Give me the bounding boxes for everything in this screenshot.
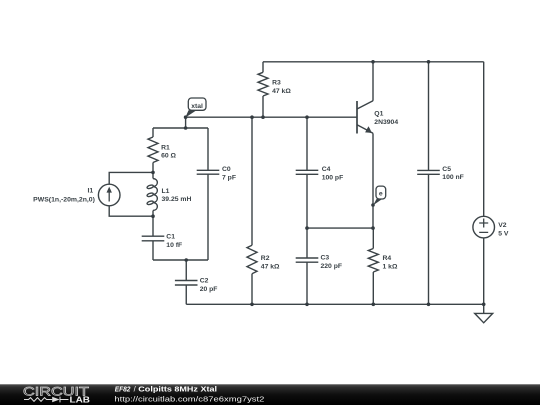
wire base rail <box>186 116 357 118</box>
node e flag <box>373 199 382 206</box>
inductor L1 <box>153 179 157 211</box>
wire R2 bottom <box>251 274 253 305</box>
wire emitter link <box>307 227 373 229</box>
wire R2 top <box>251 117 253 245</box>
voltage source V2 <box>473 216 495 238</box>
wire xtal node stub <box>185 117 187 128</box>
wire C0 bottom stub <box>207 174 209 260</box>
wire R4 bottom <box>372 272 374 304</box>
wire tank bottom rail <box>153 259 208 261</box>
junction gnd C3 <box>305 303 309 307</box>
svg-text:2N3904: 2N3904 <box>374 119 398 126</box>
wire C0 top stub <box>207 128 209 170</box>
wire R1 to L1 <box>152 163 154 179</box>
resistor R1 <box>148 137 158 163</box>
wire ground stub <box>483 304 485 313</box>
svg-text:C2: C2 <box>200 278 209 285</box>
svg-text:220 pF: 220 pF <box>321 263 343 270</box>
capacitor C2 <box>175 281 198 286</box>
junction emitter link left <box>305 226 309 230</box>
svg-text:e: e <box>379 190 383 197</box>
wire tank top rail <box>153 127 208 129</box>
wire C4 to C3 <box>306 174 308 258</box>
junction gnd R2 <box>250 303 254 307</box>
svg-text:EF82: EF82 <box>115 384 131 393</box>
capacitor C3 <box>296 258 319 262</box>
wire C5 bottom stub <box>428 174 430 304</box>
svg-text:Q1: Q1 <box>374 111 383 118</box>
wire I1 bottom <box>109 206 153 216</box>
wire R4 top <box>372 228 374 248</box>
svg-text:C0: C0 <box>222 166 231 173</box>
junction base C4 <box>305 115 309 119</box>
junction xtal node <box>184 115 188 119</box>
wire ground rail <box>186 303 483 305</box>
svg-text:R3: R3 <box>272 79 281 86</box>
svg-text:10 fF: 10 fF <box>166 242 182 249</box>
junction tank bottom <box>184 258 188 262</box>
resistor R2 <box>247 245 257 274</box>
resistor R3 <box>258 72 268 96</box>
svg-text:I1: I1 <box>88 188 94 195</box>
wire I1 top <box>109 172 153 184</box>
svg-text:C1: C1 <box>166 234 175 241</box>
junction L1 I1 <box>151 214 155 218</box>
capacitor C5 <box>417 170 440 174</box>
svg-text:http://circuitlab.com/c87e6xmg: http://circuitlab.com/c87e6xmg7yst2 <box>114 395 264 404</box>
wire C1 bottom <box>152 241 154 260</box>
wire V2 top <box>483 62 485 217</box>
svg-text:47 kΩ: 47 kΩ <box>261 263 280 270</box>
footer bar <box>0 384 540 405</box>
wire emitter down <box>372 133 374 228</box>
svg-text:60 Ω: 60 Ω <box>161 153 176 160</box>
svg-text:47 kΩ: 47 kΩ <box>272 88 291 95</box>
wire R3 top stub <box>262 62 264 73</box>
svg-text:LAB: LAB <box>70 394 91 404</box>
capacitor C0 <box>197 170 220 174</box>
wire C5 top stub <box>428 62 430 171</box>
current source I1 <box>98 184 120 206</box>
svg-text:xtal: xtal <box>191 103 203 110</box>
svg-text:V2: V2 <box>498 222 507 229</box>
capacitor C4 <box>296 170 319 174</box>
svg-text:L1: L1 <box>162 188 170 195</box>
svg-text:PWS(1n,-20m,2n,0): PWS(1n,-20m,2n,0) <box>33 196 95 203</box>
svg-text:100 pF: 100 pF <box>322 175 344 182</box>
svg-text:R2: R2 <box>261 255 270 262</box>
wire C2 bottom stub <box>185 285 187 304</box>
logo resistor diode glyph <box>24 397 69 403</box>
wire collector <box>372 62 374 101</box>
junction top collector <box>371 60 375 64</box>
junction e node <box>371 203 375 207</box>
svg-text:C5: C5 <box>442 166 451 173</box>
junction emitter link right <box>371 226 375 230</box>
wire C3 bottom stub <box>306 262 308 304</box>
svg-text:R1: R1 <box>161 144 170 151</box>
capacitor C1 <box>142 236 165 241</box>
svg-text:1 kΩ: 1 kΩ <box>383 263 398 270</box>
resistor R4 <box>368 249 378 273</box>
junction gnd C5 <box>427 303 431 307</box>
wire V2 bottom <box>483 238 485 304</box>
svg-text:Colpitts 8MHz Xtal: Colpitts 8MHz Xtal <box>138 384 217 393</box>
svg-text:39.25 mH: 39.25 mH <box>162 196 192 203</box>
svg-text:R4: R4 <box>383 255 392 262</box>
ground <box>475 313 493 322</box>
svg-text:C3: C3 <box>321 255 330 262</box>
wire top rail <box>263 61 484 63</box>
wire R1 top stub <box>152 128 154 137</box>
wire R3 bottom stub <box>262 96 264 117</box>
svg-text:100 nF: 100 nF <box>442 174 464 181</box>
junction top C5 <box>427 60 431 64</box>
svg-text:C4: C4 <box>322 166 331 173</box>
junction tank top <box>184 126 188 130</box>
transistor Q1 <box>356 101 358 134</box>
junction gnd R4 <box>372 303 376 307</box>
junction R1 I1 <box>151 171 155 175</box>
wire L1 to C1 <box>152 211 154 237</box>
node xtal flag <box>185 110 196 117</box>
svg-text:5 V: 5 V <box>498 230 509 237</box>
junction gnd V2 <box>482 303 486 307</box>
svg-text:7 pF: 7 pF <box>222 175 236 182</box>
svg-text:20 pF: 20 pF <box>200 286 218 293</box>
junction base R3 <box>261 115 265 119</box>
wire C4 top stub <box>306 117 308 170</box>
wire C2 top stub <box>185 260 187 281</box>
junction base R2 <box>250 115 254 119</box>
